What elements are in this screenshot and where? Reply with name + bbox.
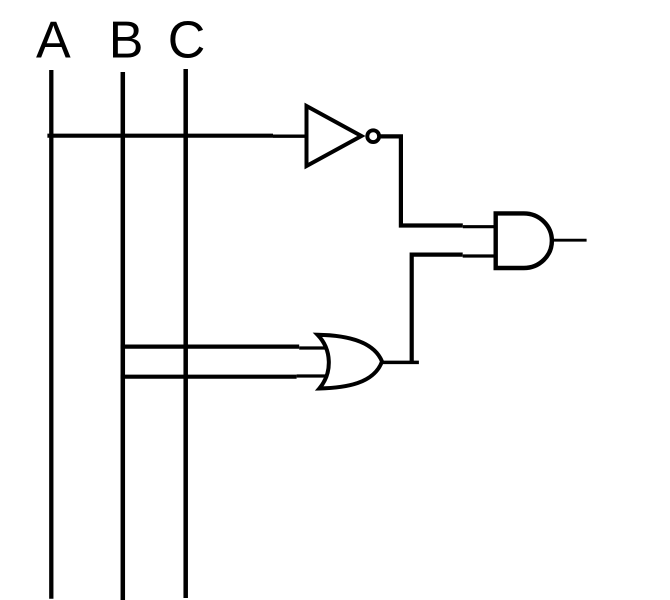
svg-text:B: B xyxy=(109,12,144,70)
svg-text:A: A xyxy=(36,12,71,70)
svg-text:C: C xyxy=(168,12,206,70)
